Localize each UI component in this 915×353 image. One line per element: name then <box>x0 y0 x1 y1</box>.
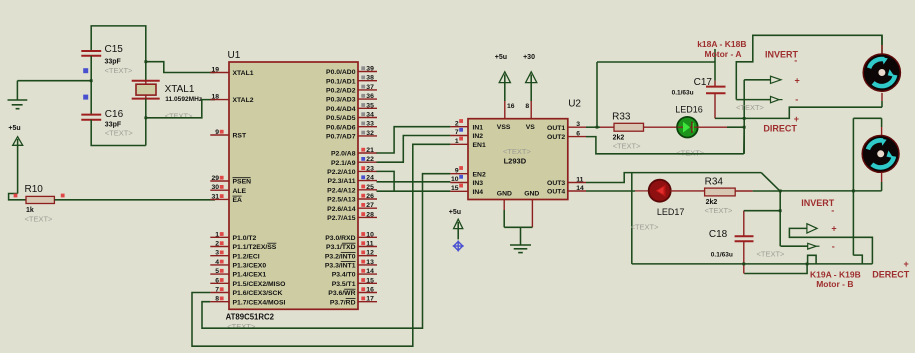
U1 pin 8 P1.7/CEX4/MOSI <box>210 301 229 303</box>
wire P2.2 down to IN4 rail <box>377 171 395 191</box>
junction under-rail loop <box>806 263 809 266</box>
wire OUT1 to R33 <box>586 126 600 128</box>
svg-text:EA: EA <box>233 197 243 204</box>
junction motor-B bottom rail right <box>852 190 855 193</box>
U1 overline INT0 on P3.2 <box>341 251 356 253</box>
U2 GND wires to ground <box>503 200 505 211</box>
svg-text:Motor - A: Motor - A <box>705 49 742 59</box>
svg-text:P3.1/TXD: P3.1/TXD <box>326 244 356 251</box>
svg-text:31: 31 <box>211 193 219 200</box>
svg-text:P2.7/A15: P2.7/A15 <box>327 215 356 222</box>
svg-text:U2: U2 <box>568 99 581 110</box>
svg-text:P0.3/AD3: P0.3/AD3 <box>326 97 356 104</box>
U1 pin 30 ALE <box>210 189 229 191</box>
svg-text:P0.2/AD2: P0.2/AD2 <box>326 88 356 95</box>
wire P2.3 to IN3 <box>377 181 451 183</box>
svg-text:XTAL1: XTAL1 <box>165 84 195 95</box>
wire invert bracket motor A <box>736 35 882 99</box>
svg-text:24: 24 <box>366 175 374 182</box>
svg-text:13: 13 <box>366 259 374 266</box>
svg-text:INVERT: INVERT <box>801 198 835 208</box>
svg-text:P3.4/T0: P3.4/T0 <box>332 272 356 279</box>
svg-text:EN1: EN1 <box>473 142 486 149</box>
svg-text:11.0592MHz: 11.0592MHz <box>165 96 203 103</box>
svg-text:14: 14 <box>576 185 584 192</box>
capacitor C16 <box>81 114 101 116</box>
svg-text:<TEXT>: <TEXT> <box>631 223 660 232</box>
svg-text:P2.1/A9: P2.1/A9 <box>331 160 356 167</box>
svg-text:8: 8 <box>525 103 529 110</box>
svg-text:<TEXT>: <TEXT> <box>503 147 532 156</box>
svg-text:7: 7 <box>455 129 459 136</box>
wire motor B top step <box>853 117 881 119</box>
U1 pin 5 P1.4/CEX1 <box>210 273 229 275</box>
U1 pin 28 P2.7/A15 <box>358 216 377 218</box>
U1 pin 23 P2.2/A10 <box>358 170 377 172</box>
svg-text:22: 22 <box>366 156 374 163</box>
svg-text:R34: R34 <box>705 177 724 188</box>
ground symbol top-left <box>16 81 18 100</box>
svg-text:P3.6/WR: P3.6/WR <box>328 290 355 297</box>
U1 overline RD on P3.7 <box>346 297 356 299</box>
probe arrow plus motor B <box>807 224 817 233</box>
U1 pin 4 P1.3/CEX0 <box>210 264 229 266</box>
svg-text:P2.4/A12: P2.4/A12 <box>327 187 356 194</box>
wire R34 to motor B bottom rail <box>753 190 780 192</box>
svg-text:P0.1/AD1: P0.1/AD1 <box>326 78 356 85</box>
svg-text:+5u: +5u <box>8 125 20 132</box>
svg-text:P0.7/AD7: P0.7/AD7 <box>326 134 356 141</box>
svg-text:27: 27 <box>366 202 374 209</box>
svg-text:R10: R10 <box>25 184 44 195</box>
U1 pin 16 P3.6/WR <box>358 292 377 294</box>
U1 pin 10 P3.0/RXD <box>358 236 377 238</box>
junction DIRECT step <box>743 117 746 120</box>
svg-text:+5u: +5u <box>449 209 461 216</box>
svg-text:OUT2: OUT2 <box>547 134 565 141</box>
wire OUT2 to DIRECT riser <box>586 137 744 154</box>
wire branch to XTAL1 pin19 <box>146 62 215 73</box>
svg-text:P3.2/INT0: P3.2/INT0 <box>325 253 356 260</box>
U1 pin 34 P0.5/AD5 <box>358 117 377 119</box>
svg-text:C16: C16 <box>105 109 124 120</box>
U1 pin 14 P3.4/T0 <box>358 273 377 275</box>
U1 overline TXD on P3.1 <box>342 242 356 244</box>
svg-text:6: 6 <box>215 277 219 284</box>
svg-text:P1.1/T2EX/SS: P1.1/T2EX/SS <box>233 244 277 251</box>
svg-text:4: 4 <box>215 259 219 266</box>
svg-text:11: 11 <box>366 241 373 248</box>
capacitor C18 <box>743 211 745 237</box>
U1 overline EA <box>233 195 242 197</box>
svg-text:P2.6/A14: P2.6/A14 <box>327 206 356 213</box>
svg-text:P1.5/CEX2/MISO: P1.5/CEX2/MISO <box>233 281 286 288</box>
svg-text:15: 15 <box>366 277 374 284</box>
U1 pin 24 P2.3/A11 <box>358 180 377 182</box>
svg-text:-: - <box>794 56 797 66</box>
svg-text:RST: RST <box>233 133 247 140</box>
svg-text:15: 15 <box>451 185 459 192</box>
U1 pin 12 P3.2/INT0 <box>358 255 377 257</box>
svg-text:P1.6/CEX3/SCK: P1.6/CEX3/SCK <box>233 290 283 297</box>
svg-text:OUT3: OUT3 <box>547 180 565 187</box>
resistor R33 <box>600 126 614 128</box>
resistor R10 <box>26 196 54 203</box>
svg-text:GND: GND <box>524 191 539 198</box>
svg-text:32: 32 <box>366 130 374 137</box>
svg-text:36: 36 <box>366 93 374 100</box>
svg-text:LED16: LED16 <box>675 104 703 114</box>
U1 pin 27 P2.6/A14 <box>358 207 377 209</box>
wire P1.6 to EN1 <box>192 144 450 346</box>
svg-text:35: 35 <box>366 102 374 109</box>
svg-text:IN2: IN2 <box>473 133 484 140</box>
wire LED17 to R34 <box>670 190 704 192</box>
svg-text:<TEXT>: <TEXT> <box>705 206 734 215</box>
U1 pin 7 P1.6/CEX3/SCK <box>210 292 229 294</box>
svg-text:9: 9 <box>215 129 219 136</box>
svg-text:P1.4/CEX1: P1.4/CEX1 <box>233 272 267 279</box>
svg-text:19: 19 <box>211 67 219 74</box>
svg-text:34: 34 <box>366 112 374 119</box>
wire OUT4 to LED17 <box>586 190 635 192</box>
U2 pin 14 OUT4 <box>568 190 586 192</box>
U1 overline WR on P3.6 <box>344 288 355 290</box>
svg-text:P2.3/A11: P2.3/A11 <box>328 178 356 185</box>
crystal XTAL1 <box>132 80 160 82</box>
svg-text:Motor - B: Motor - B <box>816 279 853 289</box>
svg-text:<TEXT>: <TEXT> <box>757 249 786 258</box>
U2 pin 16 VSS <box>504 101 506 119</box>
svg-text:P1.0/T2: P1.0/T2 <box>233 235 257 242</box>
svg-text:39: 39 <box>366 66 374 73</box>
U1 overline INT1 on P3.3 <box>341 261 356 263</box>
svg-text:P0.0/AD0: P0.0/AD0 <box>326 69 356 76</box>
U2 pin 6 OUT2 <box>568 136 586 138</box>
motor A <box>881 35 883 45</box>
wire P1.7 to EN2 <box>202 174 450 329</box>
U1 overline SS on P1.1 <box>267 242 276 244</box>
ground wire left <box>17 80 91 82</box>
svg-text:<TEXT>: <TEXT> <box>105 66 134 75</box>
svg-text:38: 38 <box>366 75 374 82</box>
svg-text:OUT1: OUT1 <box>547 125 565 132</box>
svg-text:30: 30 <box>211 184 219 191</box>
node marker blue square lower <box>83 95 88 100</box>
probe arrow plus motor A <box>744 79 770 81</box>
junction LED16/DIRECT riser <box>743 126 746 129</box>
IC U2 L293D body <box>468 119 568 200</box>
svg-text:37: 37 <box>366 84 374 91</box>
U1 pin 1 P1.0/T2 <box>210 236 229 238</box>
U2 pin 3 OUT1 <box>568 126 586 128</box>
svg-text:10: 10 <box>366 231 374 238</box>
svg-text:R33: R33 <box>612 112 631 123</box>
svg-text:28: 28 <box>366 211 374 218</box>
motor B <box>881 118 883 127</box>
svg-text:+30: +30 <box>523 54 535 61</box>
wire P2.1 to IN2 <box>377 136 451 163</box>
probe arrow minus motor A <box>736 99 770 101</box>
svg-text:P0.6/AD6: P0.6/AD6 <box>326 124 356 131</box>
U1 pin 26 P2.5/A13 <box>358 198 377 200</box>
U2 pin 2 IN1 <box>450 126 468 128</box>
junction C18 bottom on rail <box>742 263 745 266</box>
wire top rail to C17 <box>597 61 715 63</box>
wire diagonal corner motor B <box>761 173 780 191</box>
svg-text:XTAL2: XTAL2 <box>233 97 254 104</box>
U1 pin 22 P2.1/A9 <box>358 161 377 163</box>
svg-text:+: + <box>831 224 836 234</box>
svg-text:18: 18 <box>211 94 219 101</box>
svg-text:33pF: 33pF <box>105 59 122 66</box>
wire C15-bottom to C16-top <box>90 56 92 115</box>
U1 pin 38 P0.1/AD1 <box>358 80 377 82</box>
svg-text:XTAL1: XTAL1 <box>233 70 254 77</box>
U1 pin 17 P3.7/RD <box>358 301 377 303</box>
wire C18 under-rail loop <box>744 264 807 274</box>
svg-text:GND: GND <box>497 191 512 198</box>
junction motor-B bottom rail left <box>779 190 782 193</box>
svg-text:33pF: 33pF <box>105 122 122 129</box>
junction C18 top on riser <box>779 209 782 212</box>
U1 pin 33 P0.6/AD6 <box>358 126 377 128</box>
svg-text:IN4: IN4 <box>473 189 484 196</box>
svg-text:DERECT: DERECT <box>872 270 910 280</box>
U2 pin 8 VS <box>530 101 532 119</box>
wire bump below minus arrow <box>808 255 817 264</box>
U1 overline PSEN <box>233 177 251 179</box>
svg-text:8: 8 <box>215 296 219 303</box>
svg-text:3: 3 <box>576 121 580 128</box>
svg-text:16: 16 <box>507 103 515 110</box>
U1 pin 39 P0.0/AD0 <box>358 71 377 73</box>
svg-text:16: 16 <box>366 287 374 294</box>
U2 pin 10 IN3 <box>450 182 468 184</box>
wire R10 to EA pin31 <box>54 199 215 201</box>
svg-text:33: 33 <box>366 121 374 128</box>
U2 pin 9 EN2 <box>450 173 468 175</box>
svg-text:K19A - K19B: K19A - K19B <box>810 269 861 279</box>
U1 pin 13 P3.3/INT1 <box>358 264 377 266</box>
probe arrow minus motor B <box>781 245 808 247</box>
U1 pin 11 P3.1/TXD <box>358 246 377 248</box>
svg-text:P3.7/RD: P3.7/RD <box>330 299 356 306</box>
svg-text:C18: C18 <box>709 229 728 240</box>
wire C18 top to invert riser <box>744 210 780 212</box>
junction ground wire C15-C16 <box>90 79 93 82</box>
svg-text:6: 6 <box>576 130 580 137</box>
wire invert riser motor B <box>779 191 781 246</box>
wire C17 down to DIRECT line <box>714 93 716 118</box>
U2 pin 11 OUT3 <box>568 182 586 184</box>
wire P2.4/IN4 rail <box>377 190 451 192</box>
U1 pin 2 P1.1/T2EX/SS <box>210 246 229 248</box>
wire P2.0 to IN1 <box>377 127 451 153</box>
svg-text:12: 12 <box>366 250 374 257</box>
LED17 red <box>635 190 649 192</box>
svg-text:2k2: 2k2 <box>613 134 625 141</box>
U2 pin 15 IN4 <box>450 190 468 192</box>
svg-text:P0.5/AD5: P0.5/AD5 <box>326 115 356 122</box>
svg-text:ALE: ALE <box>233 188 247 195</box>
svg-text:1: 1 <box>455 138 459 145</box>
svg-text:<TEXT>: <TEXT> <box>736 103 765 112</box>
wire plus-probe loop motor B <box>789 228 872 264</box>
IC U1 AT89C51RC2 body <box>229 62 358 309</box>
wire C17 up to motor label <box>714 49 716 81</box>
svg-text:P3.0/RXD: P3.0/RXD <box>325 235 355 242</box>
U2 pin 7 IN2 <box>450 135 468 137</box>
svg-text:<TEXT>: <TEXT> <box>105 129 134 138</box>
junction OUT1/R33 node <box>596 126 599 129</box>
wire jog to DERECT rail <box>853 255 862 264</box>
svg-text:7: 7 <box>215 287 219 294</box>
U1 pin 19 XTAL1 <box>210 72 229 74</box>
svg-text:k18A - K18B: k18A - K18B <box>697 39 746 49</box>
U1 pin 32 P0.7/AD7 <box>358 135 377 137</box>
svg-text:+5u: +5u <box>495 54 507 61</box>
U1 pin 37 P0.2/AD2 <box>358 89 377 91</box>
svg-text:P1.3/CEX0: P1.3/CEX0 <box>233 263 267 270</box>
svg-text:VS: VS <box>526 124 536 131</box>
svg-text:P0.4/AD4: P0.4/AD4 <box>326 106 356 113</box>
wire LED16 to DIRECT node <box>698 126 728 128</box>
svg-text:<TEXT>: <TEXT> <box>676 149 705 158</box>
svg-text:2: 2 <box>455 120 459 127</box>
capacitor C15 <box>81 50 101 52</box>
svg-text:0.1/63u: 0.1/63u <box>711 251 733 258</box>
svg-text:26: 26 <box>366 193 374 200</box>
svg-text:<TEXT>: <TEXT> <box>613 142 642 151</box>
U1 pin 21 P2.0/A8 <box>358 152 377 154</box>
U1 pin 9 RST <box>210 134 229 136</box>
svg-text:5: 5 <box>215 268 219 275</box>
svg-text:10: 10 <box>451 176 459 183</box>
svg-text:0.1/63u: 0.1/63u <box>672 90 694 97</box>
svg-text:P2.5/A13: P2.5/A13 <box>327 197 356 204</box>
svg-text:2: 2 <box>215 241 219 248</box>
U1 pin 6 P1.5/CEX2/MISO <box>210 282 229 284</box>
U1 pin 25 P2.4/A12 <box>358 189 377 191</box>
svg-text:VSS: VSS <box>497 124 511 131</box>
svg-text:<TEXT>: <TEXT> <box>25 215 54 224</box>
wire LED17 branch down <box>631 173 633 264</box>
resistor R34 <box>705 188 736 196</box>
svg-text:L293D: L293D <box>504 156 527 165</box>
U1 pin 31 EA <box>210 198 229 200</box>
svg-text:AT89C51RC2: AT89C51RC2 <box>226 313 275 322</box>
net marker red squares R10 <box>14 194 18 198</box>
U1 pin 18 XTAL2 <box>210 99 229 101</box>
wire C16-bottom loop to crystal-bottom <box>91 120 146 146</box>
node marker blue square upper <box>83 68 88 73</box>
wire motor A bottom to DIRECT <box>744 107 882 118</box>
svg-text:EN2: EN2 <box>473 171 486 178</box>
wire crystal vertical <box>145 81 147 84</box>
svg-text:C17: C17 <box>694 77 713 88</box>
junction crystal bottom branch <box>144 116 147 119</box>
capacitor C17 <box>706 86 726 88</box>
svg-text:21: 21 <box>366 147 374 154</box>
svg-text:P2.2/A10: P2.2/A10 <box>327 169 356 176</box>
svg-text:P3.3/INT1: P3.3/INT1 <box>325 263 356 270</box>
U1 pin 29 PSEN <box>210 180 229 182</box>
svg-text:<TEXT>: <TEXT> <box>227 322 256 331</box>
wire motor B side drop <box>852 118 854 255</box>
svg-text:11: 11 <box>576 176 583 183</box>
U1 pin 3 P1.2/ECI <box>210 255 229 257</box>
svg-text:25: 25 <box>366 184 374 191</box>
wire DIRECT riser <box>743 80 745 154</box>
svg-text:P2.0/A8: P2.0/A8 <box>331 151 356 158</box>
ground symbol below U2 <box>520 227 522 245</box>
svg-text:1k: 1k <box>26 207 34 214</box>
svg-text:9: 9 <box>455 167 459 174</box>
svg-text:P1.7/CEX4/MOSI: P1.7/CEX4/MOSI <box>233 299 286 306</box>
svg-text:1: 1 <box>215 231 219 238</box>
svg-text:IN3: IN3 <box>473 180 484 187</box>
wire OUT3 to invert rail motor B <box>586 173 761 183</box>
svg-text:-: - <box>832 241 835 251</box>
svg-text:23: 23 <box>366 165 374 172</box>
svg-text:17: 17 <box>366 296 374 303</box>
svg-text:C15: C15 <box>105 44 124 55</box>
wire crystal-bottom to XTAL2 pin18 <box>146 100 215 118</box>
wire C15-top to crystal-top loop <box>91 26 146 81</box>
svg-text:DIRECT: DIRECT <box>763 123 797 133</box>
wire bottom rail DERECT <box>632 263 873 265</box>
svg-text:PSEN: PSEN <box>233 179 252 186</box>
U2 pin 1 EN1 <box>450 143 468 145</box>
svg-text:29: 29 <box>211 175 219 182</box>
U1 pin 15 P3.5/T1 <box>358 282 377 284</box>
svg-text:+: + <box>904 259 909 269</box>
svg-text:<TEXT>: <TEXT> <box>165 112 194 121</box>
U1 pin 35 P0.4/AD4 <box>358 107 377 109</box>
LED16 green <box>677 117 698 138</box>
svg-text:U1: U1 <box>228 50 241 61</box>
junction crystal top branch <box>144 60 147 63</box>
svg-text:P1.2/ECI: P1.2/ECI <box>233 253 260 260</box>
svg-text:P3.5/T1: P3.5/T1 <box>332 281 356 288</box>
svg-text:-: - <box>831 206 834 216</box>
svg-text:OUT4: OUT4 <box>547 189 565 196</box>
svg-text:IN1: IN1 <box>473 124 484 131</box>
U1 pin 36 P0.3/AD3 <box>358 98 377 100</box>
svg-text:-: - <box>795 95 798 105</box>
svg-text:3: 3 <box>215 250 219 257</box>
svg-text:+: + <box>795 76 800 86</box>
wire +5u to R10 <box>9 194 26 200</box>
svg-text:14: 14 <box>366 268 374 275</box>
wire OUT1 riser to top rail <box>596 62 598 127</box>
svg-text:LED17: LED17 <box>657 207 685 217</box>
